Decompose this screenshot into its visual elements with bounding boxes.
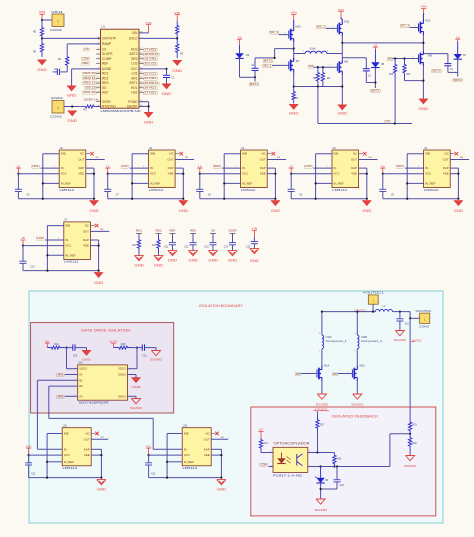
wire VIN to M11 xyxy=(341,17,342,21)
capacitor C21 xyxy=(142,344,156,357)
power port 5V (R16) xyxy=(258,428,263,438)
junction IN_REF U11 xyxy=(46,461,48,463)
resistor R4 xyxy=(58,54,69,68)
junction CS rail xyxy=(394,122,396,124)
svg-text:1: 1 xyxy=(348,372,349,374)
capacitor C22 xyxy=(25,455,36,478)
svg-text:VCC: VCC xyxy=(150,172,156,176)
svg-text:VDD1: VDD1 xyxy=(79,367,87,371)
svg-text:SSSR: SSSR xyxy=(102,100,111,104)
svg-text:1: 1 xyxy=(57,106,59,110)
svg-text:VEE: VEE xyxy=(443,172,449,176)
svg-text:GND: GND xyxy=(37,68,47,72)
svg-text:VCC: VCC xyxy=(334,172,340,176)
svg-text:AGND: AGND xyxy=(102,67,112,71)
svg-text:5V: 5V xyxy=(45,339,49,343)
svg-text:CON3: CON3 xyxy=(419,325,429,329)
wire VCC U3 xyxy=(108,173,149,175)
junction VCC xyxy=(165,68,167,70)
junction C19 xyxy=(399,311,401,313)
ground GND (U2) xyxy=(89,201,99,213)
wire VCC U2 xyxy=(18,173,59,175)
ground GND (GND2) xyxy=(131,378,141,389)
resistor R18 xyxy=(333,453,342,467)
wire IN_REF U6 xyxy=(407,182,423,184)
svg-text:R19: R19 xyxy=(413,425,418,427)
junction VCC U3 xyxy=(107,173,109,175)
svg-text:VIN1: VIN1 xyxy=(51,10,64,14)
svg-text:GND: GND xyxy=(419,107,429,111)
wire M13 source xyxy=(356,381,358,395)
no-connect X U11 xyxy=(91,432,99,436)
svg-text:1: 1 xyxy=(57,20,59,24)
wire OUT U2 xyxy=(86,157,105,159)
wire VCC U11 xyxy=(29,454,63,456)
svg-text:REF: REF xyxy=(83,61,89,65)
svg-text:UVLO: UVLO xyxy=(129,36,138,40)
wire UVLO to divider xyxy=(139,37,177,39)
svg-text:VIN: VIN xyxy=(252,227,258,231)
wire PGND/SSOFF xyxy=(139,102,149,113)
svg-text:VCC: VCC xyxy=(64,453,70,457)
svg-text:15: 15 xyxy=(289,164,293,168)
svg-text:BST2: BST2 xyxy=(433,69,442,73)
no-connect X U6 xyxy=(450,152,458,156)
svg-text:1: 1 xyxy=(355,351,356,353)
svg-text:SGND: SGND xyxy=(316,403,330,407)
wire R19 branch xyxy=(390,434,410,467)
power port 5V (U10 left) xyxy=(45,339,50,347)
svg-text:GND: GND xyxy=(362,209,372,213)
junction IN_REF U6 xyxy=(406,182,408,184)
svg-text:SLOPE: SLOPE xyxy=(102,52,113,56)
svg-text:1: 1 xyxy=(413,57,414,59)
svg-text:1: 1 xyxy=(235,166,236,168)
wire M10 source xyxy=(293,42,295,60)
transistor M13 xyxy=(352,364,365,381)
svg-text:OUT: OUT xyxy=(260,158,266,162)
svg-text:VCC: VCC xyxy=(26,444,32,448)
svg-text:NC: NC xyxy=(353,152,357,156)
svg-text:LM5112: LM5112 xyxy=(183,466,198,470)
junction VCC U6 xyxy=(382,173,384,175)
junction R11 top xyxy=(403,57,405,59)
svg-text:M7: M7 xyxy=(296,59,300,63)
capacitor C6 xyxy=(15,174,30,199)
svg-text:VIN: VIN xyxy=(421,5,427,9)
svg-text:NC: NC xyxy=(262,152,266,156)
capacitor C20 xyxy=(73,344,87,357)
svg-text:A1: A1 xyxy=(79,373,83,377)
resistor R3 xyxy=(33,25,44,38)
optocoupler U13 PC817 xyxy=(271,442,311,478)
power port 15V (U6) xyxy=(380,164,385,173)
svg-text:SR1: SR1 xyxy=(58,373,65,377)
junction VCC U5 xyxy=(290,173,292,175)
junction divider xyxy=(176,37,178,39)
isolated feedback box xyxy=(251,407,436,516)
svg-text:DAP: DAP xyxy=(78,166,84,170)
junction rail U2 xyxy=(42,198,44,200)
svg-text:VDD2: VDD2 xyxy=(118,367,126,371)
resistor R20 xyxy=(408,434,417,450)
svg-text:RAMP: RAMP xyxy=(102,42,111,46)
junction at VIN1 xyxy=(41,19,43,21)
wire M8 drain to C3 xyxy=(342,57,366,59)
digital isolator U10 xyxy=(78,362,128,405)
net label 17VDC (feedback) xyxy=(313,407,329,411)
junction R10 top xyxy=(394,57,396,59)
svg-text:BST1: BST1 xyxy=(264,59,273,63)
svg-text:LM5112: LM5112 xyxy=(424,188,439,192)
wire M14 source xyxy=(321,381,323,395)
power port VCC (U12) xyxy=(146,444,152,455)
svg-text:20 LO2: 20 LO2 xyxy=(144,61,157,65)
net label BST2 xyxy=(371,88,381,92)
wire opto emitter row xyxy=(308,466,321,468)
diode D7 xyxy=(454,42,468,60)
svg-text:R17: R17 xyxy=(320,425,325,427)
svg-text:IN_REF: IN_REF xyxy=(61,181,72,185)
wire BST1 tap xyxy=(255,49,294,58)
capacitor C12 pulldown xyxy=(184,229,198,263)
net label M5 (M14 gate) xyxy=(295,372,317,376)
svg-text:HS2 16: HS2 16 xyxy=(84,90,97,94)
svg-text:OUT: OUT xyxy=(83,229,89,233)
gate driver U3 xyxy=(149,147,176,192)
ground GND (U4) xyxy=(271,201,281,213)
svg-text:7: 7 xyxy=(319,351,320,353)
power port 15V (U7) xyxy=(20,236,25,245)
svg-text:ISOLATION BOUNDARY: ISOLATION BOUNDARY xyxy=(199,303,243,308)
svg-text:R15: R15 xyxy=(121,344,126,346)
svg-text:CS: CS xyxy=(85,47,89,51)
ground GND (R7) xyxy=(289,105,299,116)
ground SGND (GND1) xyxy=(130,399,144,410)
junction sec B xyxy=(356,311,358,313)
wire B1 to U11 xyxy=(37,380,77,449)
ground SGND (M14) xyxy=(316,394,330,407)
svg-text:IN_REF: IN_REF xyxy=(65,253,76,257)
junction VOUTDC xyxy=(409,317,411,319)
junction sec C xyxy=(321,311,323,313)
wire VCC U7 xyxy=(23,245,64,247)
power port 15V (D6) xyxy=(237,35,242,45)
svg-text:VIN: VIN xyxy=(174,11,180,15)
wire OUT U4 xyxy=(267,157,286,159)
junction rail U5 xyxy=(315,198,317,200)
resistor R9 xyxy=(321,67,331,86)
svg-text:OPTOACOPLADOR: OPTOACOPLADOR xyxy=(274,442,311,446)
transformer winding U14C xyxy=(319,333,347,353)
svg-text:15: 15 xyxy=(381,164,385,168)
svg-text:1: 1 xyxy=(74,373,75,375)
svg-text:C13: C13 xyxy=(204,247,209,249)
svg-text:R10: R10 xyxy=(389,74,394,76)
wire R4 to C5 xyxy=(61,68,68,72)
svg-text:DAP: DAP xyxy=(83,238,89,242)
ground GND (U7) xyxy=(94,273,104,285)
svg-text:CS: CS xyxy=(386,119,390,123)
svg-text:INB: INB xyxy=(64,432,69,436)
junction node B top xyxy=(341,42,343,44)
wire primary left xyxy=(294,53,305,55)
svg-text:GND: GND xyxy=(179,209,189,213)
wire VIN1 to CON1 xyxy=(42,19,52,21)
wire VDD2 xyxy=(127,348,142,369)
junction D9 top xyxy=(320,465,322,467)
power port VIN (leg B) xyxy=(338,8,344,18)
svg-text:M6: M6 xyxy=(333,372,338,376)
net label BST2 (mid) xyxy=(432,69,442,73)
junction R3/R5 xyxy=(41,37,43,39)
svg-text:M13: M13 xyxy=(360,364,366,368)
svg-text:1: 1 xyxy=(285,33,286,35)
svg-text:IN_REF: IN_REF xyxy=(150,181,161,185)
svg-text:OUT: OUT xyxy=(167,158,173,162)
resistor R5 xyxy=(33,38,44,57)
svg-text:DAP: DAP xyxy=(204,447,210,451)
svg-text:U11: U11 xyxy=(63,425,68,428)
svg-text:GND2: GND2 xyxy=(118,373,126,377)
svg-text:C25: C25 xyxy=(340,485,345,487)
svg-text:M12: M12 xyxy=(425,19,431,23)
ground GND (U3) xyxy=(179,201,189,213)
junction IN_REF U12 xyxy=(166,461,168,463)
wire INB vertical U6 xyxy=(407,154,423,199)
power port VIN (pin28) xyxy=(145,21,151,33)
resistor R17 xyxy=(316,417,325,431)
net label CS xyxy=(385,119,391,123)
net label BST2 (right) xyxy=(453,78,463,82)
wire M7 source xyxy=(293,73,295,88)
junction rail M8 xyxy=(341,85,343,87)
svg-text:VEE: VEE xyxy=(351,172,357,176)
svg-text:VEE: VEE xyxy=(79,172,85,176)
wire GND1 xyxy=(127,396,136,398)
svg-text:IN: IN xyxy=(150,166,153,170)
wire UVLO net xyxy=(42,37,101,39)
net label M6 (M9 gate) xyxy=(387,57,418,61)
power port VIN (leg A) xyxy=(291,11,297,21)
svg-text:VOUTDC1: VOUTDC1 xyxy=(363,290,384,294)
gate driver U11 xyxy=(62,425,91,471)
wire source rail xyxy=(294,86,343,88)
connector CON1 VIN1 xyxy=(50,10,64,32)
gate driver U6 xyxy=(424,147,451,192)
svg-text:3: 3 xyxy=(355,333,356,335)
gate driver U7 xyxy=(64,219,91,264)
junction IN_REF U4 xyxy=(223,182,225,184)
net label LO2 (IN of U5) xyxy=(305,164,333,168)
transistor M10 xyxy=(289,25,301,43)
capacitor C7 xyxy=(104,174,119,199)
wire gnd rail U3 xyxy=(108,198,184,200)
svg-text:M7_1: M7_1 xyxy=(401,23,410,27)
junction IN_REF U5 xyxy=(315,182,317,184)
svg-text:GND: GND xyxy=(154,264,164,268)
svg-text:LO2: LO2 xyxy=(37,236,44,240)
no-connect X U2 xyxy=(86,152,94,156)
junction C2 bottom xyxy=(254,76,256,78)
junction rail right U3 xyxy=(182,198,184,200)
wire INB vertical U12 xyxy=(167,434,182,478)
svg-text:VIN: VIN xyxy=(291,11,297,15)
svg-text:SSOFF: SSOFF xyxy=(127,105,138,109)
svg-text:VCC: VCC xyxy=(65,244,71,248)
junction rail U11 xyxy=(46,477,48,479)
wire VOUT sense xyxy=(409,318,411,419)
svg-text:BST2: BST2 xyxy=(454,78,463,82)
svg-text:ISOLATED FEEDBACK: ISOLATED FEEDBACK xyxy=(332,413,378,418)
isolation boundary box xyxy=(29,291,443,523)
junction C25 rail xyxy=(336,465,338,467)
svg-text:VIN: VIN xyxy=(338,8,344,12)
capacitor C19 xyxy=(396,312,409,331)
diode D6 xyxy=(235,45,249,58)
svg-text:B2: B2 xyxy=(79,384,83,388)
wire AGND down xyxy=(71,69,73,86)
wire R11 to source xyxy=(405,79,424,81)
svg-text:OUT: OUT xyxy=(443,158,449,162)
wire IN_REF U7 xyxy=(47,254,63,256)
junction IN_REF U7 xyxy=(46,254,48,256)
power port VIN (C15) xyxy=(252,227,258,238)
junction rail right U12 xyxy=(220,477,222,479)
svg-text:M6: M6 xyxy=(388,57,393,61)
svg-text:GND: GND xyxy=(338,111,348,115)
junction PGND xyxy=(148,105,150,107)
svg-text:22 LO1: 22 LO1 xyxy=(144,72,157,76)
svg-text:M3_1: M3_1 xyxy=(317,25,326,29)
wire R10 to CS xyxy=(394,79,396,124)
resistor R16 xyxy=(259,438,268,450)
junction R8 top xyxy=(317,66,319,68)
svg-text:IN_REF: IN_REF xyxy=(64,460,75,464)
resistor R15 xyxy=(114,344,134,349)
junction rail U4 xyxy=(223,198,225,200)
wire IN_REF U5 xyxy=(316,182,332,184)
wire D6 to C2 bottom xyxy=(240,58,256,77)
svg-text:4: 4 xyxy=(309,451,310,453)
wire VIN down xyxy=(41,20,43,25)
gate driver U5 xyxy=(332,147,359,192)
no-connect X U7 xyxy=(90,224,98,228)
wire VCC pin xyxy=(139,68,167,70)
svg-text:1: 1 xyxy=(58,238,59,240)
svg-text:LM5112: LM5112 xyxy=(63,466,78,470)
connector VOUTDC xyxy=(416,309,433,329)
wire GND1 to RT xyxy=(64,106,79,108)
resistor R8 xyxy=(313,67,320,86)
svg-text:GND: GND xyxy=(144,121,154,125)
ground SGND (C19) xyxy=(394,331,408,343)
svg-text:IN: IN xyxy=(334,166,337,170)
junction VCC U4 xyxy=(199,173,201,175)
wire gnd rail U12 xyxy=(149,477,222,479)
wire IN_REF U2 xyxy=(43,182,59,184)
svg-text:C21: C21 xyxy=(142,355,147,357)
svg-text:PGND: PGND xyxy=(128,100,138,104)
svg-text:IN_REF: IN_REF xyxy=(242,181,253,185)
svg-text:LO2: LO2 xyxy=(131,62,137,66)
svg-text:HO2: HO2 xyxy=(397,164,404,168)
power port 6.7V (U10 right) xyxy=(110,339,118,347)
wire M8 source xyxy=(341,74,343,99)
power port 15V (U2) xyxy=(16,164,21,173)
svg-text:U14A: U14A xyxy=(310,48,316,51)
svg-text:SGND: SGND xyxy=(130,406,144,410)
net label LO1 (IN of U3) xyxy=(121,164,149,168)
svg-text:GND: GND xyxy=(228,259,238,263)
net label BST1 xyxy=(263,59,273,63)
svg-text:INB: INB xyxy=(65,224,70,228)
wire gnd rail U2 xyxy=(18,198,94,200)
net label LO2 (IN of U7) xyxy=(36,236,64,240)
wire RAMP pin xyxy=(67,43,100,45)
svg-text:IN: IN xyxy=(425,166,428,170)
transistor M11 xyxy=(337,20,349,36)
wire VCC U12 xyxy=(149,454,183,456)
svg-text:VCC: VCC xyxy=(146,444,152,448)
svg-text:DAP: DAP xyxy=(168,166,174,170)
ground GND (PGND) xyxy=(144,113,154,125)
svg-text:15: 15 xyxy=(374,43,378,47)
svg-text:PC817-1-A-ND: PC817-1-A-ND xyxy=(273,474,303,478)
wire RAMP down xyxy=(66,44,68,54)
svg-text:VIN: VIN xyxy=(145,21,151,25)
wire M9 drain to C4 xyxy=(423,53,448,55)
wire R20 to SGND xyxy=(409,450,411,456)
svg-text:15: 15 xyxy=(21,236,25,240)
svg-text:GND: GND xyxy=(94,281,104,285)
junction rail right U5 xyxy=(366,198,368,200)
svg-text:HO1: HO1 xyxy=(33,164,40,168)
svg-text:GND: GND xyxy=(162,92,172,96)
svg-text:17 HO2: 17 HO2 xyxy=(144,47,157,51)
resistor R14 xyxy=(47,344,64,349)
svg-text:BST1: BST1 xyxy=(250,82,259,86)
junction source rail A xyxy=(293,85,295,87)
ground GND (AGND) xyxy=(67,86,77,98)
svg-text:M10: M10 xyxy=(295,25,301,29)
capacitor C5 xyxy=(53,68,60,75)
wire M11 source xyxy=(341,36,343,60)
svg-text:1: 1 xyxy=(418,166,419,168)
resistor R11 xyxy=(403,59,411,80)
net label HO1 (IN of U2) xyxy=(32,164,60,168)
svg-text:NC: NC xyxy=(80,152,84,156)
svg-text:IN_REF: IN_REF xyxy=(184,460,195,464)
junction node C xyxy=(422,42,424,44)
svg-text:M4: M4 xyxy=(309,64,314,68)
junction VEE U4 xyxy=(274,173,276,175)
wire VCC U6 xyxy=(383,173,424,175)
svg-text:INB: INB xyxy=(425,152,430,156)
svg-text:1: 1 xyxy=(303,51,304,53)
svg-text:RES: RES xyxy=(190,229,196,233)
svg-text:24 SR1: 24 SR1 xyxy=(144,76,157,80)
wire DAP/VEE U12 xyxy=(211,449,221,477)
U1 left pin net labels xyxy=(82,47,99,102)
ground GND (C20) xyxy=(82,348,92,362)
no-connect X U4 xyxy=(267,152,275,156)
svg-text:5: 5 xyxy=(319,333,320,335)
svg-text:VEE: VEE xyxy=(260,172,266,176)
svg-text:INB: INB xyxy=(184,432,189,436)
wire D7 to BST2 xyxy=(448,59,458,76)
svg-text:NC: NC xyxy=(445,152,449,156)
